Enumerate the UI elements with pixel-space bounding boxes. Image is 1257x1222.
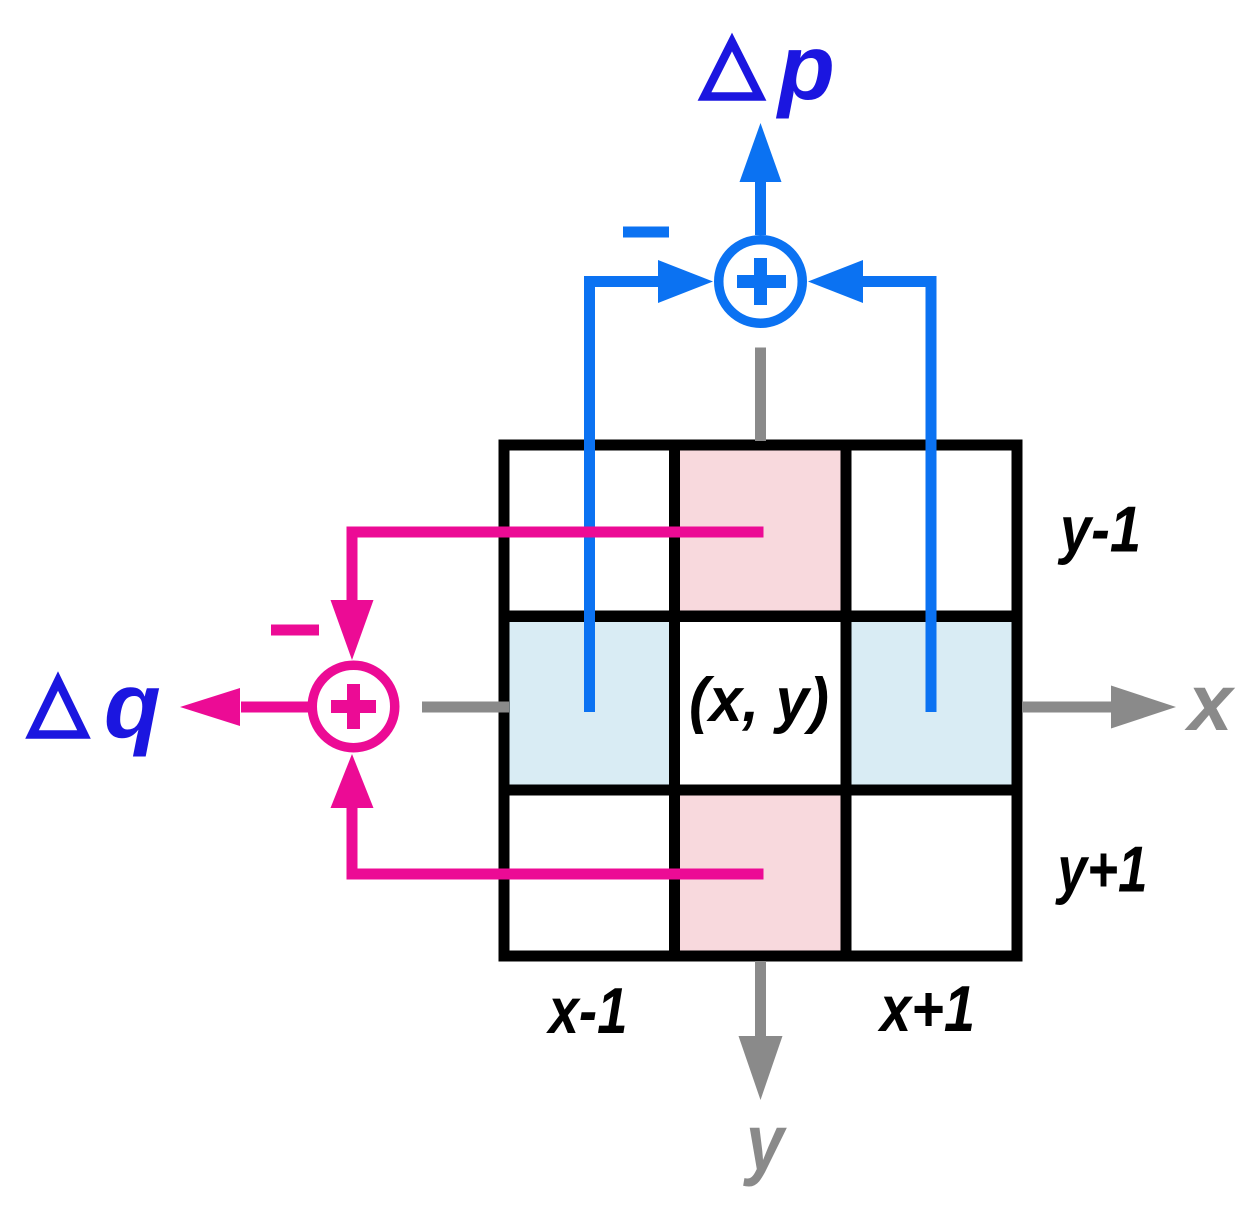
svg-text:(x, y): (x, y) [689, 666, 829, 735]
svg-text:p: p [775, 15, 835, 119]
svg-text:y-1: y-1 [1057, 493, 1141, 566]
svg-text:y+1: y+1 [1055, 833, 1147, 906]
svg-text:q: q [104, 653, 161, 757]
svg-text:y: y [743, 1098, 787, 1187]
svg-text:x-1: x-1 [546, 974, 628, 1047]
svg-text:x+1: x+1 [877, 972, 975, 1045]
svg-text:x: x [1184, 658, 1236, 747]
